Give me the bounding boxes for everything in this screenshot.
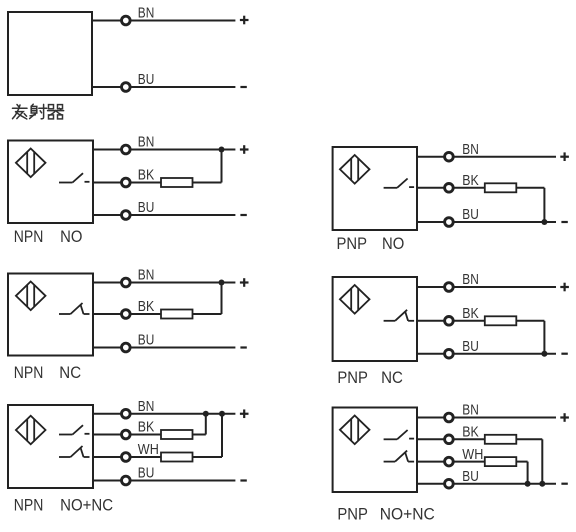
wire BK [417,320,486,322]
load resistor [161,178,193,187]
svg-text:BK: BK [138,167,155,184]
wire WH [417,461,486,463]
terminal BU [122,343,131,352]
terminal BU [122,476,131,485]
wire BU [93,347,235,349]
PNP NO+NC sensor symbol [340,416,370,445]
terminal BU [445,479,454,488]
svg-text:PNP: PNP [337,369,368,387]
terminal BU [122,211,131,220]
wire BK [93,182,162,184]
NPN NC sensor symbol [16,282,46,311]
minus terminal - (PNP NO) [561,221,567,223]
wire vertical to BU [543,188,545,222]
svg-text:BU: BU [462,338,479,355]
junction 1 on BU [539,481,545,487]
junction on BU [541,219,547,225]
svg-text:NPN: NPN [14,228,44,246]
junction 2 on BN [219,411,225,417]
minus terminal - (NPN NC) [240,346,246,348]
load resistor [161,453,193,462]
svg-text:PNP: PNP [337,235,368,253]
wire BN [417,417,556,419]
load resistor [485,316,517,325]
NPN NC box [8,274,93,356]
PNP NC box [333,277,417,361]
minus terminal - (PNP NC) [561,353,567,355]
wire BN [93,282,235,284]
terminal BN [122,278,131,287]
svg-text:BU: BU [462,206,479,223]
terminal BU [445,349,454,358]
minus terminal - [240,86,246,88]
wire resistor to junction [193,182,222,184]
NPN NO+NC switch NC [59,446,90,457]
NPN NO+NC box [8,405,93,488]
PNP NO+NC switch NC [384,451,415,462]
wire BK resistor to vertical [193,434,206,436]
svg-text:NO: NO [60,228,82,246]
wire BK [417,438,486,440]
NPN NO sensor symbol [16,149,46,178]
junction 1 on BN [203,411,209,417]
terminal BN [445,413,454,422]
svg-text:BU: BU [462,468,479,485]
minus terminal - (NPN NO) [240,214,246,216]
terminal BU [445,218,454,227]
wire BK [93,434,162,436]
PNP NC switch NC [384,310,415,321]
svg-text:NO+NC: NO+NC [380,505,435,523]
svg-text:NC: NC [381,369,403,387]
svg-text:BN: BN [462,271,479,288]
svg-text:BK: BK [462,305,479,322]
NPN NO box [8,141,93,224]
wire BU [417,353,556,355]
svg-text:BU: BU [138,332,155,349]
terminal BK [445,184,454,193]
svg-text:NPN: NPN [14,364,44,382]
wire WH [93,456,162,458]
svg-text:BU: BU [138,71,155,88]
svg-text:BK: BK [462,424,479,441]
wire BK resistor to vertical [516,438,542,440]
wire resistor to junction [193,313,222,315]
plus terminal + (PNP NO) [560,152,569,161]
terminal BK [122,430,131,439]
junction on BU [541,351,547,357]
wire BK [417,187,486,189]
svg-text:BN: BN [138,134,155,151]
plus terminal + (NPN NC) [240,278,249,287]
junction on BN [219,147,225,153]
wire BN [93,413,235,415]
wire vertical BK to BN [205,414,207,435]
NPN NC switch NC [59,303,90,314]
wire BN [417,286,556,288]
terminal BK [445,435,454,444]
svg-text:BK: BK [462,172,479,189]
terminal BK [122,178,131,187]
svg-text:BK: BK [138,298,155,315]
minus terminal - (NPN NO+NC) [240,479,246,481]
PNP NO+NC switch NO [384,430,415,439]
wire resistor to vertical [516,187,544,189]
terminal BN [445,152,454,161]
svg-text:BN: BN [138,398,155,415]
wire BN [93,149,235,151]
wire BU [417,483,556,485]
NPN NO switch NO [59,173,90,182]
terminal BU [122,83,131,92]
load resistor [485,435,517,444]
wire WH resistor to vertical [193,456,223,458]
wire vertical to BU [543,321,545,354]
svg-text:NO+NC: NO+NC [60,497,113,515]
svg-text:BN: BN [462,402,479,419]
PNP NO box [333,147,417,230]
wire BK [93,313,162,315]
wire vertical WH to BU [527,462,529,484]
wire resistor to vertical [516,320,544,322]
svg-text:NO: NO [382,235,404,253]
svg-text:NPN: NPN [14,497,44,515]
plus terminal + (PNP NC) [560,283,569,292]
wire WH resistor to vertical [516,461,527,463]
label transmitter (Chinese) [13,104,64,119]
wire BU [93,214,235,216]
minus terminal - (PNP NO+NC) [561,483,567,485]
terminal WH [122,453,131,462]
wire junction vertical [221,150,223,183]
terminal BN [445,283,454,292]
wire BU [92,86,235,88]
svg-text:BN: BN [138,267,155,284]
terminal BN [122,409,131,418]
svg-text:WH: WH [138,441,159,458]
svg-text:WH: WH [462,446,483,463]
load resistor [161,310,193,319]
wire BN [417,156,556,158]
NPN NO+NC sensor symbol [16,416,46,445]
junction on BN [219,280,225,286]
load resistor [161,430,193,439]
load resistor [485,457,517,466]
svg-text:BN: BN [138,5,155,22]
wire BU [93,480,235,482]
wire junction vertical [221,283,223,315]
NPN NO+NC switch NO [59,425,90,434]
terminal WH [445,457,454,466]
plus terminal + [240,16,249,25]
plus terminal + (NPN NO+NC) [240,409,249,418]
svg-text:PNP: PNP [337,505,368,523]
load resistor [485,183,517,192]
wire BN [92,20,235,22]
terminal BN [122,16,131,25]
PNP NO+NC box [333,408,417,493]
svg-text:NC: NC [59,364,81,382]
PNP NC sensor symbol [340,285,370,314]
wire vertical BK to BU [541,439,543,483]
svg-text:BU: BU [138,199,155,216]
plus terminal + (PNP NO+NC) [560,413,569,422]
terminal BN [122,145,131,154]
svg-text:BN: BN [462,141,479,158]
plus terminal + (NPN NO) [240,145,249,154]
PNP NO sensor symbol [340,155,370,184]
transmitter box [8,12,92,95]
terminal BK [122,310,131,319]
wire vertical WH to BN [221,414,223,457]
wire BU [417,221,556,223]
terminal BK [445,317,454,326]
svg-text:BK: BK [138,419,155,436]
junction 2 on BU [525,481,531,487]
svg-text:BU: BU [138,465,155,482]
PNP NO switch NO [384,179,415,188]
